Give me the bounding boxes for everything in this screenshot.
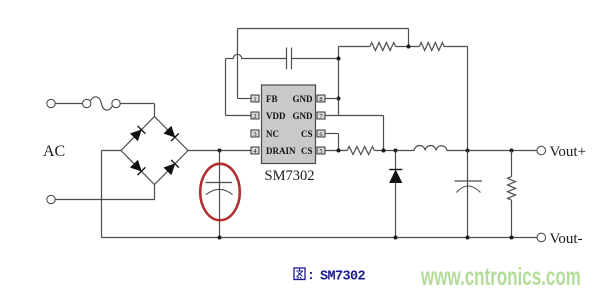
wire R2 to output [444, 47, 467, 151]
wire AC neutral to bridge bottom [55, 184, 154, 200]
resistor R3 [347, 147, 374, 155]
highlight red ellipse [200, 164, 240, 220]
wire bottom rail [102, 237, 538, 239]
svg-text:GND: GND [293, 111, 314, 121]
node CS junction [337, 149, 341, 153]
wire pin6 CS [325, 134, 339, 151]
svg-text:SM7302: SM7302 [320, 270, 366, 285]
svg-text:CS: CS [301, 129, 313, 139]
pins 1-4 left boxes [251, 95, 259, 155]
diode D3 bridge left-bottom [130, 160, 145, 175]
node pin7 drop junction [382, 149, 386, 153]
diode D5 [389, 170, 402, 183]
node C2 bottom junction [466, 236, 470, 240]
caption tu glyph [294, 268, 305, 280]
wire L1 to Vout+ [447, 150, 537, 152]
svg-text:CS: CS [301, 146, 313, 156]
wire FB vertical [238, 29, 251, 99]
node C2 junction [466, 149, 470, 153]
node AC neutral terminal [47, 195, 55, 203]
svg-text:GND: GND [293, 94, 314, 104]
node Vout+ terminal [537, 146, 546, 155]
svg-text::: : [307, 268, 315, 283]
label Vout+ [550, 144, 587, 160]
wire pin5 CS [325, 150, 347, 152]
svg-text:8: 8 [319, 96, 322, 103]
wire AC live to fuse [55, 103, 82, 105]
node C1 bottom junction [218, 236, 222, 240]
pins 5-8 right boxes [317, 95, 325, 155]
node Vout- terminal [537, 233, 546, 242]
svg-text:SM7302: SM7302 [265, 168, 315, 184]
resistor R4 [508, 177, 516, 201]
label Vout- [550, 231, 583, 247]
svg-text:FB: FB [266, 94, 278, 104]
wire pin8 GND [325, 98, 339, 100]
bridge rectifier frame [121, 117, 188, 185]
caption colon [307, 268, 315, 283]
label AC [43, 143, 65, 160]
wire comp row to VDD pin [226, 59, 251, 116]
svg-text:Vout-: Vout- [550, 231, 583, 247]
svg-text:AC: AC [43, 143, 65, 160]
IC pin labels [266, 94, 313, 156]
svg-text:NC: NC [266, 129, 279, 139]
node AC live terminal [47, 99, 55, 107]
wire comp row with hop [226, 54, 287, 58]
node diode junction [394, 149, 398, 153]
svg-text:1: 1 [253, 96, 256, 103]
label SM7302 [265, 168, 315, 184]
svg-text:3: 3 [253, 131, 256, 138]
svg-text:VDD: VDD [266, 111, 286, 121]
node R1 R2 junction [407, 45, 411, 49]
diode D1 bridge left-top [130, 126, 145, 141]
wire between R1 R2 [396, 46, 420, 48]
diode D5 lead [395, 151, 397, 238]
wire GND vertical [338, 47, 340, 116]
svg-text:www.cntronics.com: www.cntronics.com [420, 263, 581, 291]
caption SM7302 [320, 270, 366, 285]
capacitor C2 lead [467, 151, 469, 238]
wire R3 to inductor [374, 150, 414, 152]
wire FB top feedback [238, 29, 409, 47]
capacitor C1 plates [206, 183, 233, 195]
inductor L1 [414, 146, 447, 151]
node D5 bottom junction [394, 236, 398, 240]
fuse F1 [83, 97, 121, 110]
node bulk cap junction [218, 149, 222, 153]
svg-text:5: 5 [319, 148, 322, 155]
svg-text:2: 2 [253, 113, 256, 120]
diode D4 bridge bottom-right [164, 160, 179, 175]
resistor R4 lead bottom [511, 200, 513, 237]
node R4 bottom junction [510, 236, 514, 240]
diode D2 bridge top-right [164, 126, 179, 141]
capacitor C3 plates [287, 48, 292, 70]
watermark cntronics [420, 263, 581, 291]
resistor R2 [419, 43, 444, 51]
node R4 junction [510, 149, 514, 153]
svg-text:DRAIN: DRAIN [266, 146, 296, 156]
resistor R1 [370, 43, 396, 51]
svg-text:Vout+: Vout+ [550, 144, 587, 160]
node GND pin8 junction [337, 97, 341, 101]
wire bridge minus to rail [102, 151, 122, 238]
wire resistor row left [339, 46, 370, 48]
node comp cap junction [337, 57, 341, 61]
resistor R4 lead top [511, 151, 513, 177]
capacitor C2 plates [455, 181, 483, 193]
wire fuse to bridge top [120, 104, 154, 118]
capacitor C1 lead [219, 151, 221, 238]
wire pin7 GND [325, 116, 384, 151]
op-amp U1 SM7302 body [262, 85, 316, 164]
wire C3 right to GND vertical [292, 58, 339, 60]
wire bridge plus to DRAIN pin [188, 150, 251, 152]
